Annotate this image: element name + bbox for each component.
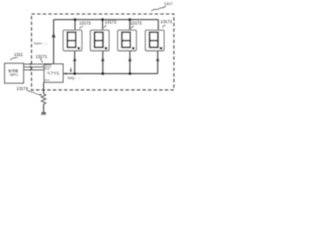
svg-text:Iseg←→: Iseg←→ — [68, 76, 81, 80]
dashed enclosure box (display unit 1317) — [32, 14, 174, 90]
arrowhead up DS3 — [128, 57, 131, 61]
svg-text:13174: 13174 — [16, 86, 28, 91]
junction dot — [73, 72, 76, 75]
leader 13174 — [27, 90, 40, 95]
svg-text:1317: 1317 — [164, 1, 173, 6]
ground — [41, 113, 46, 115]
wire bottom drop display 1 — [74, 51, 76, 73]
svg-text:Icom←→: Icom←→ — [34, 42, 48, 46]
small arrow down at bus — [70, 68, 72, 71]
leader DS4 — [163, 25, 166, 28]
driver katakana (doraiba) — [47, 72, 59, 75]
wire top drop to display 4 — [157, 20, 159, 30]
7-segment display DS4 (13172) — [145, 30, 164, 51]
junction dot — [102, 72, 105, 75]
driver box 13171 — [44, 64, 63, 82]
junction dot — [129, 18, 132, 21]
7-segment display DS2 (13172) — [90, 30, 109, 51]
arrowhead up DS4 — [156, 57, 159, 61]
MPU kanji row (shu-seigyo) — [8, 69, 18, 72]
wire MPU-driver 3 — [24, 69, 44, 71]
7-segment display DS3 (13172) — [118, 30, 137, 51]
resistor 13174 — [41, 94, 46, 104]
leader DS2 — [104, 25, 107, 28]
svg-text:MPU: MPU — [10, 73, 18, 77]
arrowhead up DS2 — [101, 57, 104, 61]
wire bottom drop display 4 — [157, 51, 159, 73]
wire MPU-driver 1 — [24, 63, 44, 65]
leader squiggle 1311 — [10, 57, 17, 60]
wire bottom drop display 3 — [129, 51, 131, 73]
arrowhead right 3 — [30, 69, 32, 71]
svg-text:13172: 13172 — [105, 20, 117, 25]
arrowhead into driver — [64, 73, 66, 75]
wire top drop to display 2 — [102, 20, 104, 30]
arrowhead Icom up — [52, 33, 56, 38]
wire bottom drop display 2 — [102, 51, 104, 73]
junction dot — [101, 18, 104, 21]
wire top drop to display 1 — [74, 20, 76, 30]
leader 13171 — [40, 59, 42, 63]
wire top drop to display 3 — [129, 20, 131, 30]
svg-text:13172: 13172 — [79, 20, 91, 25]
svg-text:13171: 13171 — [36, 54, 48, 59]
svg-text:13172: 13172 — [160, 19, 172, 24]
leader DS1 — [79, 26, 83, 29]
junction dot — [74, 18, 77, 21]
leader squiggle for 1317 — [151, 6, 166, 11]
wire top bus — [54, 19, 159, 21]
leader DS3 — [131, 26, 134, 29]
wire MPU-driver 2 — [24, 66, 44, 68]
arrowhead right 1 — [30, 63, 32, 65]
svg-text:13172: 13172 — [130, 20, 142, 25]
wire com vertical (driver to top bus) — [53, 20, 55, 64]
junction dot — [129, 72, 132, 75]
wire bottom bus — [64, 73, 158, 75]
arrowhead up DS1 — [73, 57, 76, 61]
main control MPU box 1311 — [5, 63, 24, 83]
7-segment display DS1 (13172) — [63, 30, 82, 51]
wire driver to resistor — [43, 83, 45, 94]
arrowhead right 2 — [30, 66, 32, 68]
driver pin text rows — [45, 65, 52, 81]
wire resistor to ground — [43, 104, 45, 113]
svg-text:1311: 1311 — [14, 52, 24, 57]
